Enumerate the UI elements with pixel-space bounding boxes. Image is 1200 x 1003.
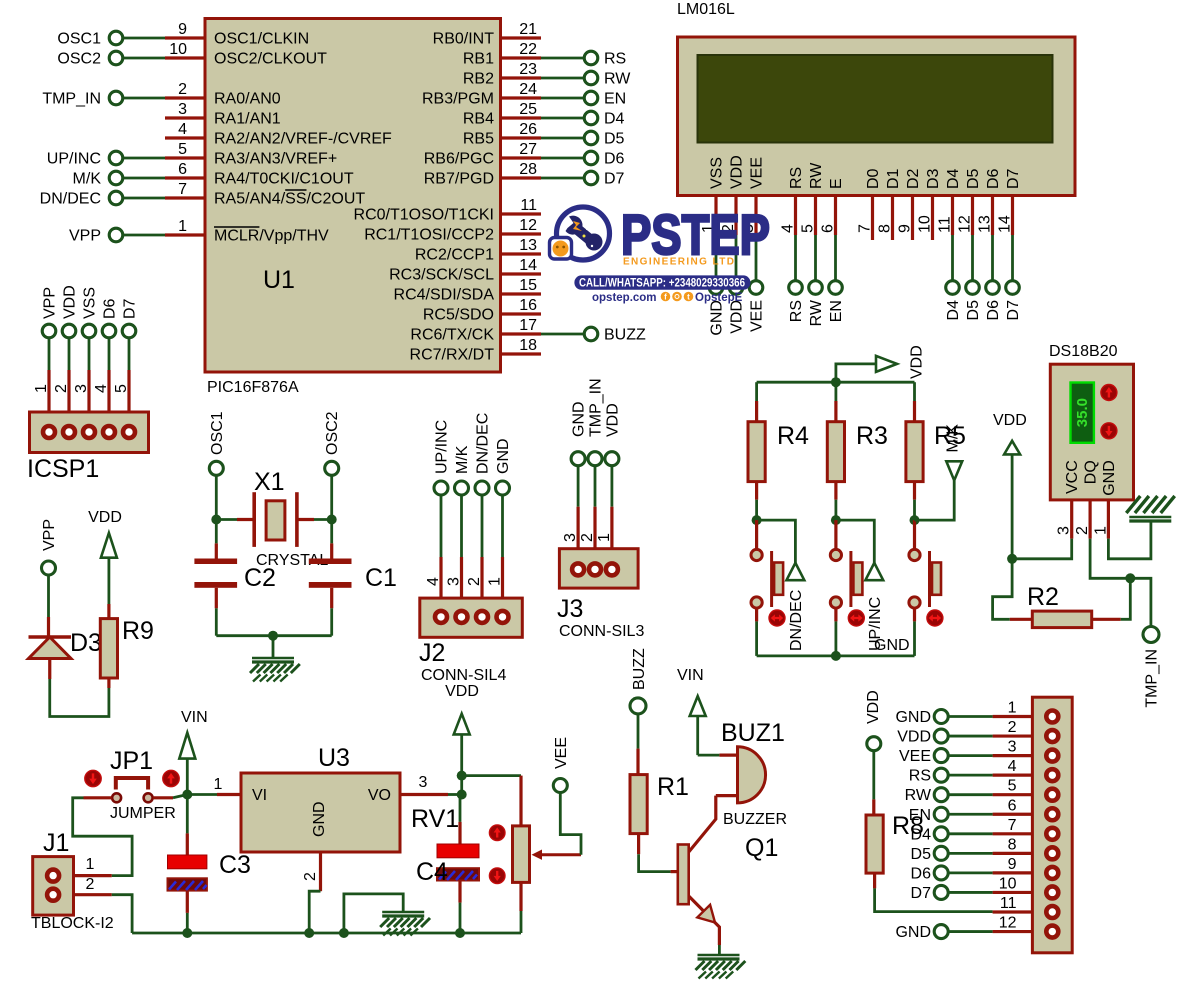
LCD pin 13 stub: [991, 196, 994, 236]
svg-text:UP/INC: UP/INC: [47, 151, 101, 168]
resistor R3 top lead: [834, 401, 837, 422]
power symbol VIN: [179, 733, 195, 759]
ICSP1 hole 5: [123, 426, 135, 438]
svg-text:10: 10: [917, 215, 934, 233]
svg-text:26: 26: [519, 121, 537, 138]
LCD screen area: [698, 55, 1053, 143]
connector pin 2 stub: [993, 734, 1033, 737]
IC U1 PIC16F876A body: [205, 19, 501, 373]
terminal VEE: [553, 779, 567, 793]
U1 pin 1 MCLR/Vpp/THV stub: [165, 233, 205, 236]
wire LCD pin 11 to D4 terminal: [951, 235, 954, 281]
LCD pin 1 stub: [714, 196, 717, 236]
terminal D6: [584, 151, 598, 165]
wire U1 pin 27 to D6 terminal: [541, 157, 585, 160]
J2 pin 4 stub: [439, 557, 442, 611]
terminal TMP_IN at J3: [588, 452, 602, 466]
wire M/K terminal to U1 pin 6: [123, 177, 166, 180]
U1 pin 7 RA5/AN4/SS/C2OUT stub: [165, 196, 205, 199]
connector pin 8 stub: [993, 852, 1033, 855]
svg-text:CALL/WHATSAPP: +2348029330366: CALL/WHATSAPP: +2348029330366: [579, 278, 745, 290]
svg-text:4: 4: [780, 224, 797, 233]
LCD pin 7 stub: [871, 196, 874, 241]
terminal DN/DEC at J2: [475, 481, 489, 495]
U1 pin 16 RC5/SDO stub: [501, 312, 542, 315]
svg-text:RW: RW: [808, 299, 825, 326]
svg-text:C4: C4: [416, 858, 448, 886]
node junction OSC1/crystal/C2: [211, 515, 221, 525]
Q1 collector lead: [689, 796, 716, 852]
terminal RS under LCD: [789, 281, 803, 295]
terminal M/K at J2: [455, 481, 469, 495]
svg-text:9: 9: [1008, 856, 1017, 873]
svg-text:D0: D0: [865, 168, 882, 189]
resistor R4 bottom lead: [755, 482, 758, 500]
ICSP1 pin 5 stub: [127, 370, 130, 428]
LCD pin 11 stub: [951, 196, 954, 236]
svg-text:RA5/AN4/SS/C2OUT: RA5/AN4/SS/C2OUT: [214, 191, 365, 208]
terminal RS: [584, 51, 598, 65]
resistor R8 bottom lead: [873, 873, 876, 888]
RV1 wiper arrow: [538, 853, 581, 856]
J1 pin 2 stub: [74, 893, 112, 896]
wire OSC2 terminal down to C1: [330, 475, 333, 543]
wire VDD rail to arrow: [836, 364, 876, 382]
svg-text:RS: RS: [788, 300, 805, 322]
button actuator bar: [932, 563, 941, 595]
J2 hole 3: [456, 611, 468, 623]
LCD pin 4 stub: [794, 196, 797, 236]
svg-text:opstep.com: opstep.com: [592, 292, 657, 304]
wire R9 to VDD arrow: [108, 558, 111, 604]
svg-text:RC5/SDO: RC5/SDO: [423, 307, 494, 324]
junction ground riser: [339, 928, 349, 938]
DS18B20 pin 3 stub: [1070, 500, 1073, 539]
svg-text:RC3/SCK/SCL: RC3/SCK/SCL: [389, 267, 494, 284]
svg-text:RB4: RB4: [463, 111, 494, 128]
svg-text:2: 2: [1074, 526, 1091, 535]
junction DQ node: [1125, 573, 1135, 583]
J3 hole 2: [589, 563, 601, 575]
connector J2 body: [420, 598, 523, 637]
wire VIN node to U3 VI: [187, 793, 217, 796]
wire U3 GND to rail: [309, 891, 320, 933]
svg-text:D6: D6: [102, 298, 119, 319]
svg-text:1: 1: [33, 384, 50, 393]
Q1 emitter arrow: [697, 905, 715, 923]
terminal M/K (triangle): [946, 461, 962, 480]
terminal OSC1 (crystal): [209, 461, 223, 475]
button click actuator: [848, 610, 864, 626]
ICSP1 hole 1: [43, 426, 55, 438]
svg-text:24: 24: [519, 81, 537, 98]
U1 pin 11 RC0/T1OSO/T1CKI stub: [501, 212, 542, 215]
svg-text:16: 16: [519, 297, 537, 314]
svg-text:3: 3: [446, 577, 463, 586]
wire J2 pin 4: [440, 495, 443, 557]
svg-text:GND: GND: [895, 709, 931, 726]
svg-text:D6: D6: [985, 300, 1002, 321]
crystal X1 right lead: [297, 518, 314, 521]
svg-text:DS18B20: DS18B20: [1049, 343, 1118, 360]
svg-text:VDD: VDD: [909, 345, 926, 379]
wire DS18B20 VCC to VDD node: [1012, 539, 1072, 559]
RV1 down actuator: [489, 868, 505, 884]
terminal GND at J2: [496, 481, 510, 495]
svg-text:D7: D7: [911, 885, 932, 902]
ICSP1 pin 4 stub: [107, 370, 110, 428]
svg-text:EN: EN: [828, 300, 845, 322]
terminal DN/DEC: [109, 191, 123, 205]
svg-text:RV1: RV1: [411, 805, 459, 833]
svg-text:RB0/INT: RB0/INT: [433, 31, 495, 48]
svg-text:MCLR/Vpp/THV: MCLR/Vpp/THV: [214, 228, 329, 245]
terminal D5: [584, 131, 598, 145]
svg-text:4: 4: [178, 121, 187, 138]
resistor R4 top lead: [755, 401, 758, 422]
button click actuator: [927, 610, 943, 626]
DS18B20 down button: [1101, 423, 1117, 439]
wire U1 pin 25 to D4 terminal: [541, 117, 585, 120]
JP1 pin 2 circle: [144, 793, 153, 802]
junction R5/button: [910, 515, 920, 525]
svg-text:15: 15: [519, 277, 537, 294]
wire LCD pin 14 to D7 terminal: [1011, 235, 1014, 281]
svg-text:35.0: 35.0: [1074, 398, 1091, 427]
U1 pin 18 RC7/RX/DT stub: [501, 352, 542, 355]
connector J3 body: [559, 549, 638, 588]
svg-text:EN: EN: [909, 807, 931, 824]
crystal X1 body: [266, 501, 285, 540]
terminal EN: [584, 91, 598, 105]
wire VDD node up to arrow: [1011, 454, 1014, 558]
svg-text:D6: D6: [911, 865, 932, 882]
svg-text:OSC2: OSC2: [57, 51, 101, 68]
connector pin 9 stub: [993, 871, 1033, 874]
resistor R5 body: [906, 422, 923, 482]
wire VDD terminal to R8: [872, 751, 875, 800]
svg-text:D3: D3: [70, 629, 102, 657]
wire R2 right to DQ node: [1121, 578, 1131, 619]
svg-text:12: 12: [957, 215, 974, 233]
terminal VDD at J3: [605, 452, 619, 466]
svg-text:D7: D7: [1005, 300, 1022, 321]
connector pin 4 stub: [993, 774, 1033, 777]
svg-text:BUZ1: BUZ1: [721, 719, 785, 747]
svg-text:R4: R4: [777, 422, 809, 450]
wire button to GND rail: [755, 621, 758, 656]
ICSP1 hole 2: [63, 426, 75, 438]
button bottom contact circle: [830, 597, 841, 608]
svg-text:DQ: DQ: [1083, 460, 1100, 484]
wire DQ node to TMP_IN terminal: [1130, 578, 1151, 626]
resistor R8 top lead: [872, 799, 875, 815]
OPSTEP logo graphic: [550, 203, 771, 304]
buzzer BUZ1 top pin: [719, 753, 737, 756]
terminal D5 under LCD: [966, 281, 980, 295]
ICSP1 hole 3: [83, 426, 95, 438]
ICSP1 pin 3 stub: [87, 370, 90, 428]
wire VDD node up to arrow junction: [460, 776, 463, 795]
connector J1 body: [33, 857, 74, 916]
power symbol VIN (buzzer): [690, 696, 706, 716]
buzzer BUZ1 body: [738, 747, 766, 803]
connector hole 12: [1046, 926, 1058, 938]
J1 hole 1: [47, 870, 59, 882]
svg-text:11: 11: [520, 197, 537, 214]
JP1 left click actuator: [85, 770, 101, 786]
svg-text:R3: R3: [856, 422, 888, 450]
svg-text:7: 7: [857, 224, 874, 233]
wire Q1 emitter to ground: [718, 945, 721, 955]
svg-text:25: 25: [519, 101, 537, 118]
svg-text:RB3/PGM: RB3/PGM: [422, 91, 494, 108]
svg-text:BUZZ: BUZZ: [604, 327, 646, 344]
svg-text:M/K: M/K: [73, 171, 102, 188]
svg-text:D4: D4: [911, 826, 932, 843]
connector hole 6: [1046, 808, 1058, 820]
wire R3 bottom to junction: [835, 500, 838, 520]
LCD pin 3 stub: [754, 196, 757, 236]
svg-text:C2: C2: [244, 564, 276, 592]
svg-text:CONN-SIL4: CONN-SIL4: [421, 667, 506, 684]
svg-text:OpstepE: OpstepE: [695, 292, 743, 304]
svg-text:9: 9: [897, 224, 914, 233]
connector body (12-pin): [1032, 697, 1072, 953]
svg-text:VDD: VDD: [88, 509, 122, 526]
sensor DS18B20 body: [1050, 364, 1133, 500]
wire C1 to ground rail: [330, 608, 333, 635]
wire TMP_IN terminal to U1 pin 2: [123, 97, 166, 100]
button bottom contact circle: [909, 597, 920, 608]
terminal OSC2: [109, 51, 123, 65]
svg-text:DN/DEC: DN/DEC: [475, 413, 492, 474]
capacitor C3 positive plate: [168, 855, 207, 869]
svg-text:E: E: [828, 178, 845, 189]
wire JP1 pin 1 to J1 pin 1: [73, 798, 132, 876]
LCD pin 8 stub: [891, 196, 894, 241]
svg-text:TBLOCK-I2: TBLOCK-I2: [31, 915, 114, 932]
button bottom pin: [755, 608, 758, 621]
wire VEE terminal to RV1 wiper: [560, 793, 581, 855]
Q1 emitter lead: [689, 896, 720, 945]
power symbol VDD (regulator output): [454, 714, 470, 735]
terminal D6 at ICSP1: [102, 324, 116, 338]
wire R1 to Q1 base: [639, 854, 671, 871]
junction VDD node (U3 output): [457, 790, 467, 800]
svg-text:13: 13: [519, 237, 537, 254]
wire U1 pin 23 to RW terminal: [541, 77, 585, 80]
terminal BUZZ: [584, 327, 598, 341]
resistor R9 body: [100, 619, 117, 678]
wire J2 pin 2: [481, 495, 484, 557]
RV1 bottom lead: [519, 882, 522, 911]
svg-text:VCC: VCC: [1064, 460, 1081, 494]
Q1 base lead: [671, 870, 678, 873]
svg-text:2: 2: [579, 533, 596, 542]
connector pin 6 stub: [993, 813, 1033, 816]
svg-text:C1: C1: [365, 564, 397, 592]
svg-text:3: 3: [562, 533, 579, 542]
svg-text:VDD: VDD: [604, 403, 621, 437]
svg-text:3: 3: [1056, 526, 1073, 535]
wire LCD pin 4 to RS terminal: [794, 235, 797, 281]
J3 pin 2 stub: [593, 507, 596, 564]
svg-text:R2: R2: [1027, 583, 1059, 611]
ground symbol (DS18B20, flipped): [1126, 496, 1174, 521]
resistor R3 body: [827, 422, 844, 482]
connector hole 7: [1046, 828, 1058, 840]
connector pin 11 stub: [993, 910, 1033, 913]
J2 hole 1: [497, 611, 509, 623]
wire VIN arrow stem (buzzer): [696, 716, 699, 755]
svg-text:5: 5: [178, 141, 187, 158]
LCD pin 14 stub: [1011, 196, 1014, 236]
svg-text:ENGINEERING LTD: ENGINEERING LTD: [623, 257, 734, 268]
svg-text:D1: D1: [885, 168, 902, 189]
svg-text:RS: RS: [604, 51, 626, 68]
svg-text:27: 27: [519, 141, 537, 158]
connector ICSP1 body: [30, 412, 149, 453]
svg-text:OSC2: OSC2: [324, 411, 341, 455]
J3 hole 1: [606, 563, 618, 575]
svg-text:21: 21: [519, 21, 537, 38]
svg-text:RC6/TX/CK: RC6/TX/CK: [410, 327, 494, 344]
connector pin 10 stub: [993, 891, 1033, 894]
J2 hole 2: [476, 611, 488, 623]
svg-text:RW: RW: [808, 162, 825, 189]
svg-text:4: 4: [425, 577, 442, 586]
J3 pin 1 stub: [610, 507, 613, 564]
terminal VPP: [109, 228, 123, 242]
junction VDD arrow node: [457, 771, 467, 781]
svg-text:BUZZER: BUZZER: [723, 811, 787, 828]
DS18B20 up button: [1101, 385, 1117, 401]
svg-text:C3: C3: [219, 851, 251, 879]
U1 pin 5 RA3/AN3/VREF+ stub: [165, 156, 205, 159]
svg-text:J1: J1: [43, 829, 69, 857]
button lever: [928, 551, 931, 607]
U1 pin 26 RB5 stub: [501, 136, 542, 139]
wire R8 to connector pin 11: [875, 888, 993, 911]
svg-text:5: 5: [113, 384, 130, 393]
LCD pin 10 stub: [931, 196, 934, 241]
svg-text:UP/INC: UP/INC: [434, 420, 451, 474]
svg-text:3: 3: [73, 384, 90, 393]
power symbol VDD (buttons, right arrow): [876, 356, 897, 372]
svg-text:J2: J2: [419, 639, 445, 667]
terminal D7 at ICSP1: [122, 324, 136, 338]
connector hole 5: [1046, 789, 1058, 801]
svg-text:VEE: VEE: [749, 300, 766, 332]
wire terminal to connector pin 8: [948, 852, 992, 855]
svg-text:BUZZ: BUZZ: [631, 648, 648, 690]
svg-text:D7: D7: [1005, 168, 1022, 189]
svg-text:VDD: VDD: [865, 690, 882, 724]
svg-text:1: 1: [214, 776, 223, 793]
resistor R2 body: [1032, 611, 1091, 628]
potentiometer RV1 body: [513, 826, 530, 883]
svg-text:1: 1: [178, 218, 187, 235]
resistor R2 right lead: [1092, 618, 1121, 621]
svg-text:14: 14: [519, 257, 537, 274]
wire U1 pin 17 to BUZZ terminal: [541, 333, 585, 336]
svg-text:D4: D4: [945, 168, 962, 189]
svg-text:5: 5: [1008, 778, 1017, 795]
svg-text:ICSP1: ICSP1: [27, 455, 99, 483]
svg-text:D6: D6: [985, 168, 1002, 189]
svg-text:D2: D2: [905, 168, 922, 189]
wire LCD pin 12 to D5 terminal: [971, 235, 974, 281]
svg-text:10: 10: [169, 41, 187, 58]
DS18B20 pin 2 stub: [1088, 500, 1091, 539]
button top pin: [913, 520, 916, 549]
terminal UP/INC at J2: [434, 481, 448, 495]
svg-text:GND: GND: [311, 801, 328, 837]
svg-text:VDD: VDD: [445, 683, 479, 700]
svg-text:2: 2: [86, 876, 95, 893]
svg-text:14: 14: [997, 215, 1014, 233]
U1 pin 22 RB1 stub: [501, 56, 542, 59]
svg-text:1: 1: [1092, 526, 1109, 535]
svg-text:RC7/RX/DT: RC7/RX/DT: [410, 347, 495, 364]
LCD pin 5 stub: [814, 196, 817, 236]
svg-text:23: 23: [519, 61, 537, 78]
wire U3 VO to VDD node: [448, 793, 462, 796]
wire J3 pin 2: [594, 466, 597, 507]
svg-text:J3: J3: [557, 595, 583, 623]
svg-text:VDD: VDD: [993, 412, 1027, 429]
svg-text:VPP: VPP: [42, 287, 59, 319]
U1 pin 28 RB7/PGD stub: [501, 176, 542, 179]
terminal VPP at ICSP1: [42, 324, 56, 338]
svg-text:VDD: VDD: [897, 729, 931, 746]
wire R5 bottom to junction: [913, 500, 916, 520]
terminal GND under LCD: [709, 281, 723, 295]
svg-text:VDD: VDD: [729, 155, 746, 189]
connector hole 10: [1046, 886, 1058, 898]
button top contact circle: [909, 549, 920, 560]
wire RV1 bottom to ground rail: [520, 911, 523, 933]
svg-text:OSC1: OSC1: [209, 411, 226, 455]
J1 pin 1 stub: [74, 874, 112, 877]
wire rail to ground symbol: [344, 894, 403, 933]
svg-text:DN/DEC: DN/DEC: [40, 191, 101, 208]
connector hole 8: [1046, 847, 1058, 859]
svg-text:RB5: RB5: [463, 131, 494, 148]
J1 hole 2: [47, 889, 59, 901]
svg-text:GND: GND: [874, 637, 910, 654]
terminal OSC2 (crystal): [325, 461, 339, 475]
svg-text:11: 11: [937, 216, 954, 233]
button lever: [849, 551, 852, 607]
wire LCD pin 6 to EN terminal: [834, 235, 837, 281]
capacitor C2 bottom lead: [215, 588, 218, 609]
svg-text:TMP_IN: TMP_IN: [1144, 649, 1161, 708]
svg-text:RS: RS: [788, 167, 805, 189]
svg-text:RC1/T1OSI/CCP2: RC1/T1OSI/CCP2: [364, 227, 494, 244]
LCD pin 2 stub: [734, 196, 737, 236]
svg-text:VPP: VPP: [69, 228, 101, 245]
button actuator bar: [774, 563, 783, 595]
svg-text:22: 22: [519, 41, 537, 58]
connector hole 4: [1046, 769, 1058, 781]
wire rail to R4 top: [755, 382, 758, 401]
svg-text:TMP_IN: TMP_IN: [588, 378, 605, 437]
wire terminal to connector pin 9: [948, 872, 992, 875]
connector hole 1: [1046, 711, 1058, 723]
svg-text:13: 13: [977, 215, 994, 233]
